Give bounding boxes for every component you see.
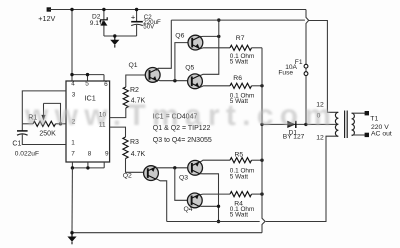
svg-text:5 Watt: 5 Watt <box>230 211 248 218</box>
transistor Q6 2N3055 <box>188 35 203 50</box>
resistor R2 4.7K <box>110 108 126 118</box>
resistor R6 0.1 Ohm 5 Watt <box>230 83 252 88</box>
capacitor C1 0.022uF <box>21 124 23 131</box>
transformer T1 secondary winding <box>352 113 355 135</box>
svg-text:5: 5 <box>85 81 89 88</box>
capacitor C2 220uF 50V <box>136 10 138 22</box>
wire Q1 collector to rail <box>157 20 172 71</box>
resistor R5 0.1 Ohm 5 Watt <box>230 158 252 163</box>
transformer T1 core <box>344 111 346 139</box>
svg-text:Q2: Q2 <box>123 172 132 179</box>
svg-text:0.022uF: 0.022uF <box>15 151 39 158</box>
transformer T1 primary winding <box>335 112 338 136</box>
wire Q3 emitter to R5 <box>201 160 231 162</box>
svg-text:4.7K: 4.7K <box>131 151 146 158</box>
resistor R4 0.1 Ohm 5 Watt <box>230 192 252 197</box>
svg-text:Q1: Q1 <box>129 62 138 69</box>
ground (near D2/C2) <box>113 34 116 37</box>
transistor Q3 2N3055 <box>188 160 203 175</box>
svg-text:R3: R3 <box>130 139 139 146</box>
svg-text:Q5: Q5 <box>185 64 194 71</box>
svg-text:Q4: Q4 <box>184 206 193 213</box>
svg-text:5 Watt: 5 Watt <box>230 59 248 66</box>
fuse F1 10A <box>306 10 309 65</box>
svg-text:3: 3 <box>72 92 76 99</box>
wire Q6 emitter to R7 <box>201 47 230 50</box>
svg-text:9: 9 <box>105 151 109 158</box>
svg-text:6: 6 <box>104 81 108 88</box>
wire Q2 emitter to Q3/Q4 bases <box>156 167 187 169</box>
resistor R3 4.7K <box>110 127 126 137</box>
svg-text:1: 1 <box>71 139 75 146</box>
svg-text:8: 8 <box>88 151 92 158</box>
wire Q4 emitter to R4 <box>200 193 230 196</box>
IC U1 CD4047 (IC1) <box>66 81 110 162</box>
ground symbol (main) <box>70 231 73 234</box>
svg-text:Q3: Q3 <box>179 175 188 182</box>
svg-text:AC out: AC out <box>371 131 392 138</box>
svg-text:www.Tmart.com: www.Tmart.com <box>24 99 331 132</box>
transistor Q4 2N3055 <box>187 193 202 208</box>
svg-text:Q6: Q6 <box>175 32 184 39</box>
diode D1 BY127 <box>262 123 338 125</box>
svg-text:Q3 to Q4= 2N3055: Q3 to Q4= 2N3055 <box>153 137 212 144</box>
svg-text:12: 12 <box>316 135 324 142</box>
transistor Q2 TIP122 <box>144 166 159 181</box>
wire IC pins 7,8,9 to ground rail <box>72 162 104 168</box>
watermark www.Tmart.com <box>24 99 331 132</box>
ground rail (bottom) <box>72 232 262 234</box>
svg-text:BY 127: BY 127 <box>283 133 305 140</box>
wire emitter rail to ground (with crossover jog) <box>262 48 265 233</box>
diode D2 zener 9.1V <box>103 10 105 20</box>
svg-text:7: 7 <box>71 151 75 158</box>
svg-text:5 Watt: 5 Watt <box>230 173 248 180</box>
potentiometer R1 250K <box>22 123 33 125</box>
svg-text:R2: R2 <box>130 87 139 94</box>
transistor Q5 2N3055 <box>188 74 203 89</box>
wire Q6 collector <box>201 35 219 37</box>
svg-text:4: 4 <box>71 81 75 88</box>
wire Q3 collector <box>201 174 219 222</box>
wire Q5 collector <box>200 20 218 75</box>
svg-text:T1: T1 <box>370 116 378 123</box>
svg-text:R7: R7 <box>236 35 245 42</box>
wire Q1 emitter to Q5/Q6 bases <box>158 79 188 82</box>
node +12V terminal <box>47 7 51 11</box>
wire collector rail to T1 tap 12 (top) <box>171 20 338 112</box>
svg-text:Fuse: Fuse <box>278 70 293 77</box>
svg-text:C1: C1 <box>12 141 21 148</box>
wire T1 secondary to AC out <box>352 113 366 135</box>
wire Q2 collector to bottom bus <box>156 179 167 222</box>
wire Q4 collector <box>200 205 218 207</box>
wire Q5 emitter to R6 <box>200 86 230 87</box>
wire +12V rail (top) <box>49 9 306 11</box>
svg-text:50V: 50V <box>143 23 155 30</box>
wire D2/C2 bottom link <box>104 35 137 37</box>
svg-text:+: + <box>131 12 136 21</box>
svg-text:R5: R5 <box>235 152 244 159</box>
svg-text:+12V: +12V <box>38 14 55 23</box>
wire bottom collector bus to T1 tap 12 (bottom) <box>167 136 338 221</box>
wire IC pin3 loop <box>22 91 66 124</box>
svg-text:9.1V: 9.1V <box>90 20 104 27</box>
resistor R7 0.1 Ohm 5 Watt <box>230 45 252 50</box>
transistor Q1 TIP122 <box>145 68 160 83</box>
wire +12V feed to IC pins 4,5,6 <box>72 10 104 82</box>
svg-text:R6: R6 <box>233 75 242 82</box>
